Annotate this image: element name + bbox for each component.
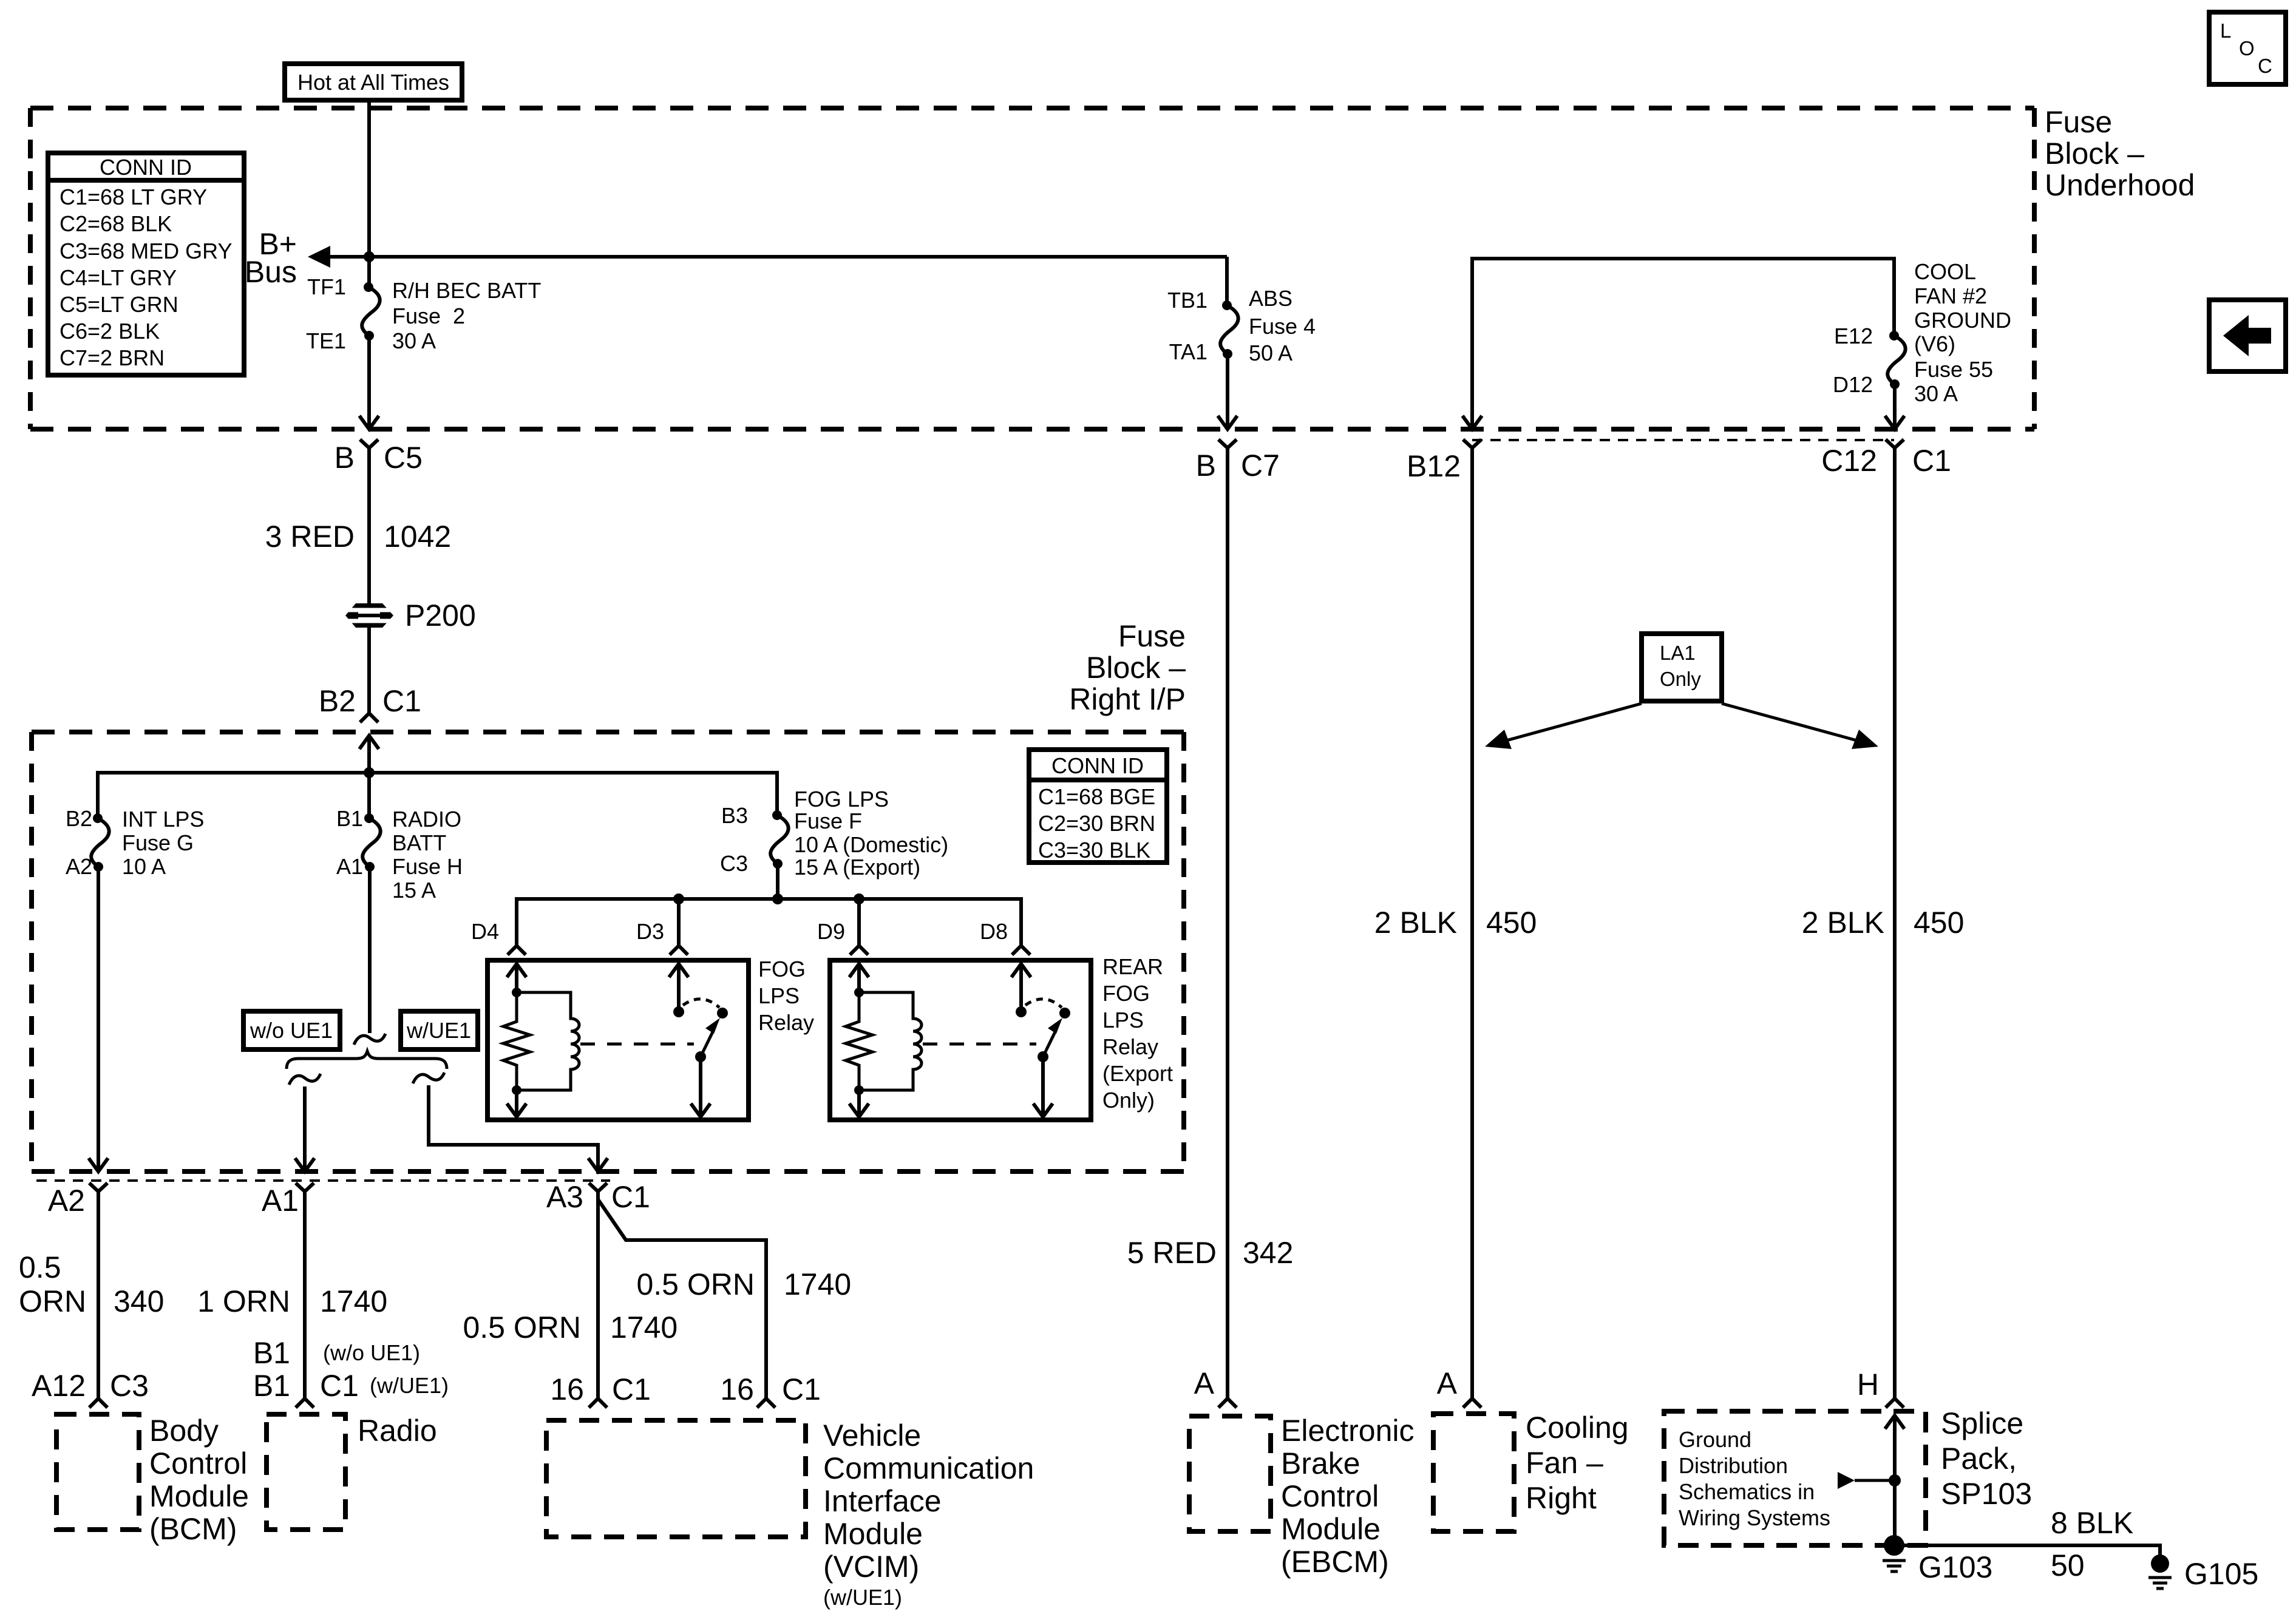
svg-text:TF1: TF1	[307, 274, 346, 299]
svg-text:(VCIM): (VCIM)	[823, 1550, 919, 1584]
svg-text:Fuse G: Fuse G	[122, 830, 194, 855]
svg-text:Fuse H: Fuse H	[392, 854, 463, 879]
svg-text:30 A: 30 A	[392, 328, 436, 353]
svg-text:Distribution: Distribution	[1679, 1453, 1788, 1478]
svg-text:C3=30 BLK: C3=30 BLK	[1038, 838, 1150, 863]
svg-text:Electronic: Electronic	[1281, 1414, 1415, 1448]
svg-text:TE1: TE1	[306, 328, 346, 353]
svg-text:Control: Control	[149, 1446, 247, 1480]
svg-text:C: C	[2258, 55, 2272, 77]
svg-text:B3: B3	[721, 803, 748, 828]
svg-text:(w/o UE1): (w/o UE1)	[323, 1340, 420, 1365]
svg-text:E12: E12	[1834, 324, 1873, 348]
svg-text:Vehicle: Vehicle	[823, 1419, 921, 1453]
svg-text:G105: G105	[2184, 1557, 2258, 1591]
svg-text:2 BLK: 2 BLK	[1374, 906, 1457, 940]
svg-text:FAN #2: FAN #2	[1914, 283, 1987, 308]
svg-text:1042: 1042	[384, 520, 451, 554]
svg-text:C1=68 BGE: C1=68 BGE	[1038, 784, 1155, 809]
svg-text:C1: C1	[782, 1372, 821, 1406]
svg-text:A2: A2	[48, 1184, 85, 1218]
svg-text:ABS: ABS	[1249, 286, 1292, 311]
svg-text:0.5 ORN: 0.5 ORN	[463, 1310, 581, 1344]
svg-text:w/UE1: w/UE1	[406, 1018, 471, 1043]
svg-text:15 A: 15 A	[392, 878, 436, 903]
svg-text:CONN ID: CONN ID	[100, 155, 192, 180]
svg-text:BATT: BATT	[392, 830, 446, 855]
svg-text:450: 450	[1486, 906, 1537, 940]
svg-text:1740: 1740	[610, 1310, 678, 1344]
svg-text:(BCM): (BCM)	[149, 1512, 237, 1546]
svg-text:P200: P200	[405, 598, 476, 632]
svg-text:Fuse: Fuse	[2045, 105, 2112, 139]
svg-text:REAR: REAR	[1102, 954, 1163, 979]
svg-text:Block –: Block –	[1086, 651, 1186, 685]
svg-text:INT LPS: INT LPS	[122, 807, 204, 832]
svg-text:B1: B1	[336, 806, 363, 831]
svg-text:C2=68 BLK: C2=68 BLK	[59, 211, 172, 236]
svg-text:Module: Module	[1281, 1512, 1381, 1546]
svg-text:D3: D3	[636, 919, 664, 944]
svg-text:D9: D9	[817, 919, 845, 944]
svg-text:50 A: 50 A	[1249, 341, 1292, 365]
svg-text:A1: A1	[262, 1184, 299, 1218]
svg-text:Cooling: Cooling	[1526, 1411, 1629, 1445]
svg-text:D4: D4	[471, 919, 499, 944]
svg-text:Body: Body	[149, 1414, 219, 1448]
svg-text:D8: D8	[980, 919, 1008, 944]
svg-text:Only): Only)	[1102, 1088, 1155, 1113]
svg-text:H: H	[1857, 1368, 1879, 1402]
svg-text:Communication: Communication	[823, 1451, 1034, 1485]
svg-text:Ground: Ground	[1679, 1427, 1751, 1452]
svg-text:342: 342	[1243, 1236, 1293, 1270]
svg-text:15 A (Export): 15 A (Export)	[794, 855, 920, 880]
svg-text:1 ORN: 1 ORN	[197, 1284, 290, 1318]
svg-text:30 A: 30 A	[1914, 381, 1958, 406]
svg-text:340: 340	[114, 1284, 164, 1318]
svg-text:Fuse: Fuse	[1118, 619, 1186, 653]
svg-text:C3: C3	[720, 851, 748, 876]
svg-text:A12: A12	[32, 1369, 86, 1403]
svg-text:0.5 ORN: 0.5 ORN	[636, 1267, 755, 1301]
svg-text:Wiring Systems: Wiring Systems	[1679, 1505, 1830, 1530]
svg-text:0.5: 0.5	[19, 1250, 61, 1284]
svg-text:FOG: FOG	[1102, 981, 1150, 1006]
svg-text:Hot at All Times: Hot at All Times	[297, 70, 449, 95]
svg-text:(w/UE1): (w/UE1)	[823, 1585, 902, 1610]
svg-text:TA1: TA1	[1169, 339, 1207, 364]
svg-text:FOG LPS: FOG LPS	[794, 787, 889, 812]
svg-text:Fuse F: Fuse F	[794, 808, 862, 833]
svg-text:L: L	[2220, 19, 2231, 42]
svg-text:C7: C7	[1241, 449, 1280, 483]
svg-text:ORN: ORN	[19, 1284, 86, 1318]
svg-text:FOG: FOG	[758, 957, 806, 981]
svg-text:3 RED: 3 RED	[265, 520, 355, 554]
svg-text:Relay: Relay	[758, 1010, 814, 1035]
svg-text:A2: A2	[66, 854, 92, 879]
svg-text:Relay: Relay	[1102, 1034, 1158, 1059]
svg-text:B1: B1	[253, 1369, 290, 1403]
svg-text:A1: A1	[336, 854, 363, 879]
svg-text:450: 450	[1914, 906, 1964, 940]
svg-text:(V6): (V6)	[1914, 331, 1955, 356]
svg-text:Fuse 2: Fuse 2	[392, 303, 465, 328]
svg-text:B: B	[1196, 449, 1216, 483]
svg-text:LPS: LPS	[758, 983, 800, 1008]
svg-text:w/o UE1: w/o UE1	[250, 1018, 333, 1043]
svg-text:B: B	[335, 441, 355, 475]
svg-text:Fuse 4: Fuse 4	[1249, 314, 1316, 339]
svg-text:C1: C1	[320, 1369, 359, 1403]
svg-text:10 A (Domestic): 10 A (Domestic)	[794, 832, 948, 857]
svg-text:8 BLK: 8 BLK	[2051, 1506, 2133, 1540]
svg-text:C5=LT GRN: C5=LT GRN	[59, 292, 178, 317]
svg-text:C1: C1	[611, 1180, 650, 1214]
svg-text:C3: C3	[110, 1369, 149, 1403]
svg-text:COOL: COOL	[1914, 259, 1976, 284]
svg-text:C5: C5	[384, 441, 423, 475]
svg-text:Underhood: Underhood	[2045, 168, 2195, 202]
svg-text:LPS: LPS	[1102, 1008, 1144, 1032]
svg-text:C12: C12	[1821, 444, 1877, 478]
svg-text:16: 16	[720, 1372, 754, 1406]
svg-text:C3=68 MED GRY: C3=68 MED GRY	[59, 239, 232, 263]
svg-text:Only: Only	[1660, 668, 1701, 690]
svg-text:O: O	[2239, 37, 2255, 59]
svg-text:D12: D12	[1833, 372, 1873, 397]
svg-text:Interface: Interface	[823, 1484, 942, 1518]
svg-text:C1=68 LT GRY: C1=68 LT GRY	[59, 185, 207, 209]
svg-text:B1: B1	[253, 1336, 290, 1370]
svg-text:1740: 1740	[784, 1267, 851, 1301]
svg-text:Pack,: Pack,	[1941, 1442, 2017, 1476]
svg-text:Fan –: Fan –	[1526, 1446, 1603, 1480]
svg-text:(w/UE1): (w/UE1)	[370, 1373, 449, 1398]
svg-text:B2: B2	[66, 806, 92, 831]
svg-text:B12: B12	[1407, 449, 1461, 483]
svg-text:Right I/P: Right I/P	[1069, 682, 1186, 716]
svg-text:Block –: Block –	[2045, 137, 2144, 171]
svg-text:C4=LT GRY: C4=LT GRY	[59, 265, 177, 290]
svg-text:10 A: 10 A	[122, 854, 166, 879]
svg-text:R/H BEC BATT: R/H BEC BATT	[392, 278, 541, 303]
svg-text:SP103: SP103	[1941, 1477, 2032, 1511]
svg-text:CONN ID: CONN ID	[1051, 753, 1144, 778]
svg-text:TB1: TB1	[1167, 288, 1207, 313]
svg-text:Fuse 55: Fuse 55	[1914, 357, 1993, 382]
svg-text:5 RED: 5 RED	[1127, 1236, 1217, 1270]
svg-text:Control: Control	[1281, 1479, 1379, 1513]
svg-text:C1: C1	[1912, 444, 1951, 478]
svg-text:G103: G103	[1918, 1550, 1992, 1584]
svg-text:(Export: (Export	[1102, 1061, 1173, 1086]
svg-text:RADIO: RADIO	[392, 807, 461, 832]
svg-text:Module: Module	[149, 1479, 249, 1513]
svg-text:C2=30 BRN: C2=30 BRN	[1038, 811, 1155, 836]
svg-text:C6=2 BLK: C6=2 BLK	[59, 319, 160, 344]
svg-text:B2: B2	[319, 684, 356, 718]
svg-text:(EBCM): (EBCM)	[1281, 1545, 1389, 1579]
svg-text:A3: A3	[546, 1180, 583, 1214]
svg-text:Right: Right	[1526, 1481, 1597, 1515]
svg-text:50: 50	[2051, 1548, 2085, 1582]
svg-text:2 BLK: 2 BLK	[1802, 906, 1884, 940]
svg-text:LA1: LA1	[1660, 642, 1696, 664]
svg-text:C1: C1	[382, 684, 421, 718]
svg-text:Schematics in: Schematics in	[1679, 1479, 1815, 1504]
svg-text:Brake: Brake	[1281, 1446, 1360, 1480]
svg-text:Module: Module	[823, 1517, 923, 1551]
svg-text:1740: 1740	[320, 1284, 387, 1318]
svg-text:Splice: Splice	[1941, 1406, 2023, 1440]
svg-text:GROUND: GROUND	[1914, 308, 2011, 333]
svg-text:Bus: Bus	[245, 255, 297, 289]
svg-text:C7=2 BRN: C7=2 BRN	[59, 345, 165, 370]
svg-text:C1: C1	[612, 1372, 651, 1406]
svg-text:Radio: Radio	[358, 1414, 437, 1448]
svg-text:A: A	[1194, 1366, 1215, 1400]
svg-text:16: 16	[550, 1372, 584, 1406]
svg-text:A: A	[1437, 1366, 1458, 1400]
